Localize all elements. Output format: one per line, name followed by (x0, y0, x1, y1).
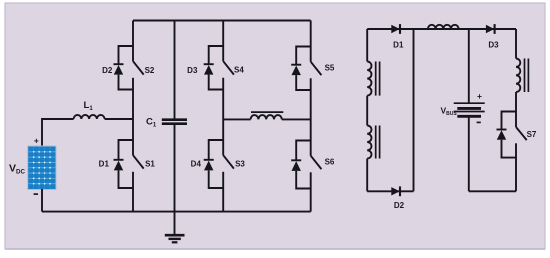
wire leg1 upper segment (132, 21, 134, 62)
wire C1 branch bottom (174, 125, 176, 212)
wire PV positive to L1 (42, 119, 74, 147)
wire C1 branch top (174, 21, 176, 119)
svg-text:D3: D3 (488, 41, 499, 50)
capacitor C1 (162, 120, 187, 124)
diode D3 (486, 24, 495, 34)
diode D3 (204, 64, 214, 74)
winding W2 primary lower (367, 126, 379, 159)
switch S4 blade (223, 61, 234, 74)
wire L1 to leg1 (105, 118, 133, 120)
wire output inductor to leg4 (282, 118, 311, 120)
wire D5 branch (296, 47, 311, 91)
switch S6 blade (311, 156, 322, 169)
diode D2 (391, 186, 400, 196)
diode D1 (391, 24, 400, 34)
svg-text:S4: S4 (234, 66, 244, 75)
wire bottom bus of inverter (42, 211, 311, 213)
wire right branch A bottom (366, 159, 368, 192)
wire right branch B (413, 29, 415, 191)
wire leg3 to output inductor (223, 118, 250, 120)
winding W1 primary upper (367, 62, 379, 96)
ground (165, 235, 185, 242)
diode of S7 (497, 130, 507, 140)
svg-text:S7: S7 (527, 130, 537, 139)
svg-text:+: + (34, 135, 39, 145)
svg-text:S6: S6 (325, 158, 335, 167)
wire top bus of inverter (133, 20, 311, 22)
wire right bottom bus A (367, 190, 413, 192)
wire ground stem (174, 212, 176, 236)
wire leg3 lower segment (222, 172, 224, 212)
diode D5 (291, 65, 301, 75)
label battery minus (477, 121, 481, 123)
wire leg4 middle segment (310, 78, 312, 155)
inductor right link (428, 25, 459, 29)
wire D4 branch (209, 140, 224, 188)
wire leg1 middle segment (132, 78, 134, 155)
diode D6 (291, 160, 301, 171)
wire S7 diode branch (502, 112, 517, 158)
winding W3 secondary (516, 59, 528, 93)
svg-text:S5: S5 (325, 64, 335, 73)
switch S1 blade (133, 155, 144, 168)
wire right branch A top (366, 29, 368, 62)
switch S2 blade (133, 61, 144, 74)
wire W3 to S7 (515, 92, 517, 127)
wire right top bus (367, 28, 516, 30)
svg-text:D3: D3 (187, 66, 198, 75)
wire leg3 upper segment (222, 21, 224, 62)
solar PV module VDC source (27, 146, 56, 191)
battery VBUS (454, 103, 485, 116)
diode D2 (114, 64, 124, 74)
inductor L1 (74, 115, 105, 119)
wire battery bottom (468, 116, 470, 191)
label PV minus (34, 193, 38, 195)
wire right branch D bottom (515, 143, 517, 191)
svg-text:S2: S2 (145, 66, 155, 75)
wire battery top (468, 29, 470, 103)
svg-text:D1: D1 (393, 41, 404, 50)
wire D1 branch (119, 140, 134, 188)
svg-text:D2: D2 (394, 201, 405, 210)
switch S3 blade (223, 155, 234, 168)
svg-text:S3: S3 (235, 160, 245, 169)
switch S5 blade (311, 62, 322, 75)
wire right branch D top (515, 29, 517, 59)
switch S7 blade (516, 127, 527, 140)
wire D3 branch (209, 46, 224, 90)
wire leg4 upper segment (310, 21, 312, 62)
wire PV negative to bottom bus (41, 189, 43, 212)
svg-text:D2: D2 (102, 66, 113, 75)
wire right bottom bus B (469, 190, 516, 192)
wire D2 branch (119, 46, 134, 90)
wire leg4 lower segment (310, 172, 312, 211)
wire D6 branch (296, 141, 311, 189)
wire leg3 middle segment (222, 78, 224, 155)
diode D4 (204, 160, 214, 171)
wire right branch A middle (366, 96, 368, 126)
inductor output filter (251, 112, 284, 119)
wire leg1 lower segment (132, 172, 134, 212)
svg-text:S1: S1 (145, 160, 155, 169)
svg-text:D1: D1 (99, 160, 110, 169)
svg-text:+: + (477, 91, 482, 101)
svg-text:D4: D4 (191, 160, 202, 169)
panel bottom shadow edge (5, 248, 545, 250)
diode D1 (114, 160, 124, 171)
